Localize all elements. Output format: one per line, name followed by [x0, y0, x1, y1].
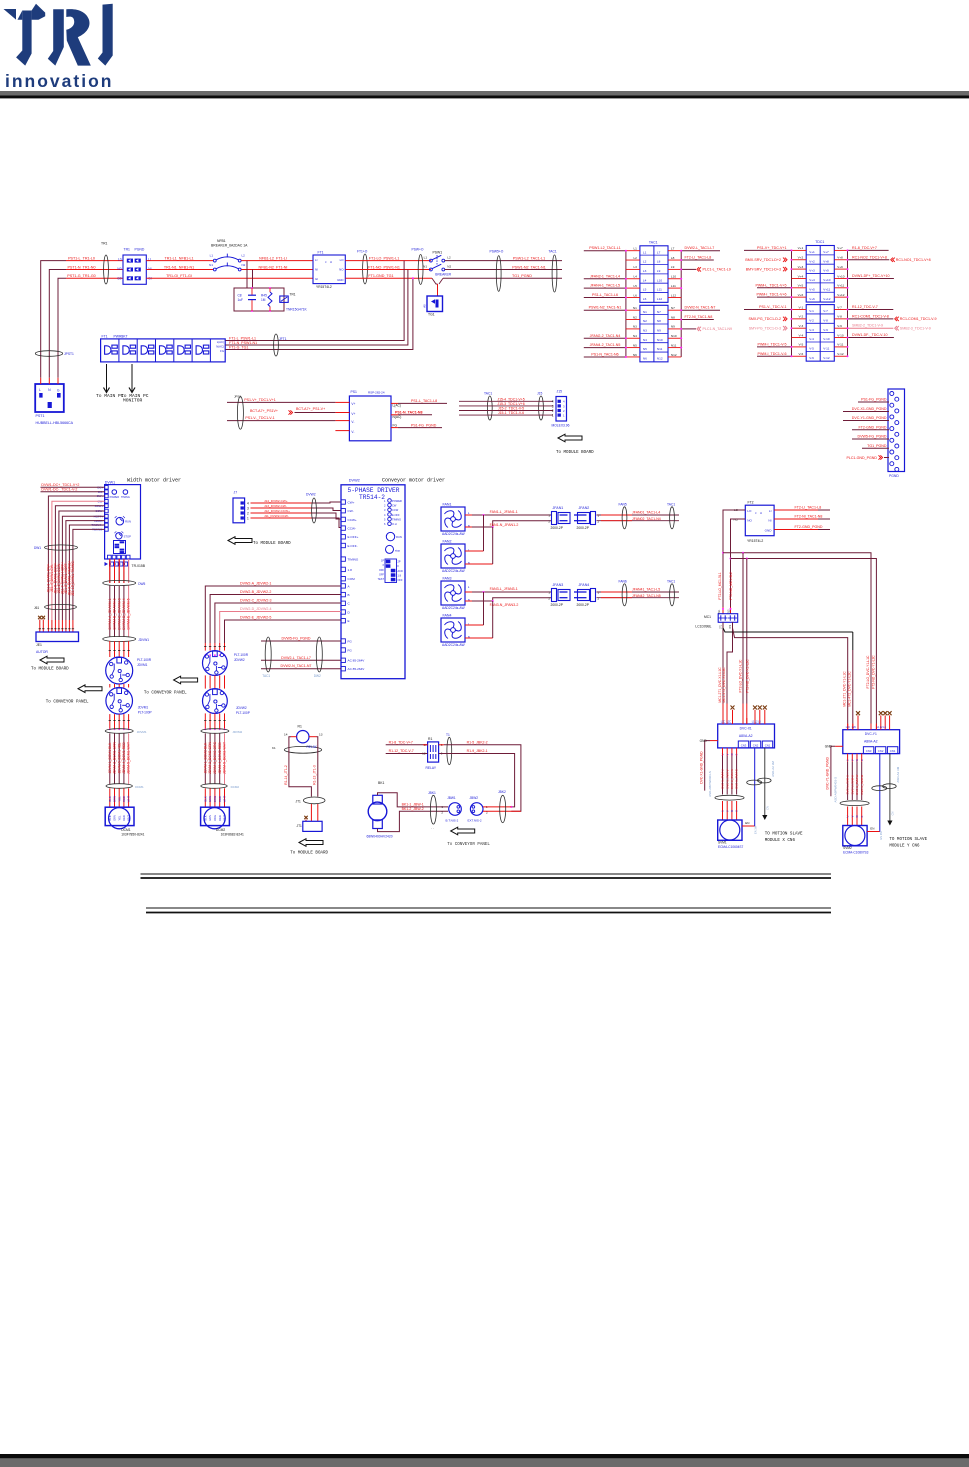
svg-text:L(AC): L(AC) [217, 340, 224, 344]
cable DCM1 [106, 784, 132, 789]
svg-text:L2C: L2C [727, 722, 732, 724]
wire snubber loop [234, 288, 284, 311]
svg-text:N6: N6 [633, 353, 637, 357]
pin stub TDC1 row 4 [792, 277, 807, 279]
svg-text:G: G [736, 753, 739, 755]
svg-text:CN3: CN3 [866, 749, 872, 753]
svg-text:2: 2 [598, 519, 600, 523]
svg-text:V-12: V-12 [837, 352, 844, 356]
svg-text:V+10: V+10 [837, 274, 845, 278]
wire TG1_PGND [862, 447, 889, 449]
svg-text:PWM-I_TDC1-V-5: PWM-I_TDC1-V-5 [758, 342, 787, 346]
svg-text:N9: N9 [657, 329, 661, 333]
svg-text:L: L [39, 388, 41, 392]
svg-text:E.OFF+: E.OFF+ [348, 535, 359, 539]
svg-text:1P: 1P [381, 560, 384, 563]
svg-text:L1: L1 [210, 254, 214, 258]
svg-text:JFAN1: JFAN1 [553, 506, 564, 510]
svg-text:DVC-X1: DVC-X1 [740, 727, 752, 731]
arrow to module board JE1 [40, 656, 64, 664]
svg-text:14: 14 [284, 732, 288, 736]
svg-text:4T2: 4T2 [730, 624, 732, 629]
wire JBW2 to JBK2 [483, 806, 511, 808]
svg-text:DVW2-C_JDVW2-3: DVW2-C_JDVW2-3 [240, 599, 272, 603]
svg-text:AAD2C24s-AW: AAD2C24s-AW [442, 606, 465, 610]
svg-text:ASD-A2 3M: ASD-A2 3M [771, 761, 775, 777]
svg-text:FAN3-L_JFAN3-1: FAN3-L_JFAN3-1 [490, 587, 518, 591]
svg-text:V+4: V+4 [809, 278, 815, 282]
svg-text:J7: J7 [234, 490, 238, 494]
svg-text:DCM1: DCM1 [135, 785, 144, 789]
svg-text:L7: L7 [671, 247, 675, 251]
footer rule [0, 1454, 969, 1458]
svg-text:V-: V- [351, 420, 354, 424]
svg-text:R1-13_JT1-3: R1-13_JT1-3 [313, 765, 317, 785]
svg-text:stop: stop [395, 549, 401, 553]
svg-text:1M: 1M [261, 298, 266, 302]
svg-text:TIMING: TIMING [392, 517, 401, 521]
svg-text:V-7: V-7 [837, 305, 842, 309]
wire feed JFAN2-1_TAC1-L4 [584, 278, 626, 280]
pin stub TAC1 row 6 [626, 296, 640, 298]
svg-text:L12: L12 [671, 293, 676, 297]
cable TAC1 dvw2 [265, 637, 271, 672]
svg-text:JBK1: JBK1 [428, 791, 436, 795]
svg-text:V+3: V+3 [809, 269, 815, 273]
pin stub TAC1 row 4 [626, 278, 640, 280]
svg-text:V+5: V+5 [809, 287, 815, 291]
svg-text:PST1-L_TR1-L0: PST1-L_TR1-L0 [68, 256, 95, 260]
svg-text:PGND: PGND [135, 248, 145, 252]
svg-text:V+9: V+9 [823, 269, 829, 273]
svg-text:PWM-I_TDC1-V+6: PWM-I_TDC1-V+6 [756, 293, 786, 297]
wire FAN4-L riser [465, 624, 484, 626]
svg-text:V+: V+ [351, 402, 355, 406]
cable DW5 [103, 580, 136, 585]
cable PSW5-O [496, 256, 501, 292]
svg-text:JFAN2-2_TAC1-N4: JFAN2-2_TAC1-N4 [590, 334, 621, 338]
wire DVW1 pin to JE1 2 [52, 501, 105, 620]
svg-text:GND: GND [825, 745, 833, 749]
wire BK1-1_JBW-1 [378, 793, 449, 807]
svg-text:V-3: V-3 [799, 324, 804, 328]
svg-text:L1: L1 [424, 256, 428, 260]
svg-text:BK1-1_JBW-1: BK1-1_JBW-1 [402, 802, 424, 806]
servo motor SVM2 [843, 826, 867, 846]
svg-text:JPS1: JPS1 [234, 394, 242, 398]
svg-text:JFAN02_TAC1-N4: JFAN02_TAC1-N4 [632, 517, 661, 521]
svg-text:JT1: JT1 [296, 800, 302, 804]
wire DVW1 pin to JE1 5 [62, 516, 104, 620]
svg-text:DVC-Y1-GND_PGND: DVC-Y1-GND_PGND [852, 416, 887, 420]
svg-text:L: L [468, 585, 470, 589]
motor wires DVC-X1 [722, 748, 724, 756]
svg-text:JDVM-3_DCM2-ORG: JDVM-3_DCM2-ORG [213, 742, 217, 775]
wire PS1 N(AC) [391, 414, 398, 416]
svg-text:J15-4_TDC1-V+5: J15-4_TDC1-V+5 [497, 397, 524, 401]
svg-text:DVWM-E_JDVWM-5: DVWM-E_JDVWM-5 [127, 598, 131, 629]
svg-text:GI: GI [315, 277, 318, 281]
svg-text:PWM-L_TDC1-V+5: PWM-L_TDC1-V+5 [755, 283, 786, 287]
wire feed JFAN2-2_TAC1-N4 [584, 337, 626, 339]
svg-text:TDC1: TDC1 [815, 240, 824, 244]
svg-text:A80A-A2: A80A-A2 [864, 740, 878, 744]
svg-text:PGND: PGND [889, 474, 899, 478]
wire FAN2-L riser [465, 550, 484, 552]
svg-text:J15: J15 [537, 392, 542, 396]
svg-text:TAC1: TAC1 [649, 241, 658, 245]
wire MC1 to DVC-X1 L1C [722, 622, 724, 703]
harness labels DCM1 upper [109, 586, 111, 638]
svg-text:E: E [348, 619, 350, 623]
svg-text:V-11: V-11 [823, 347, 829, 351]
wire FAN1-L [465, 514, 472, 516]
net RC1-COM1_TDC1-V-8 [848, 318, 894, 320]
svg-text:N1: N1 [423, 265, 427, 269]
svg-text:V+8: V+8 [837, 256, 843, 260]
svg-text:N11: N11 [657, 347, 663, 351]
motor DCM1 [109, 788, 111, 807]
svg-text:FT1-LO_PSW1-L1: FT1-LO_PSW1-L1 [369, 256, 400, 260]
bus TDC1 left [791, 250, 793, 356]
svg-text:V-4: V-4 [799, 333, 804, 337]
svg-text:JFAN3: JFAN3 [553, 583, 564, 587]
encoder EN wire DVC-X1 [742, 825, 755, 827]
wire J11_DVW2-CCW- [251, 517, 312, 519]
svg-text:1: 1 [384, 499, 386, 503]
svg-text:N7: N7 [671, 306, 675, 310]
svg-text:N5: N5 [633, 343, 637, 347]
svg-text:CCW+: CCW+ [348, 518, 357, 522]
wire DVW1 pin to JE1 1 [48, 496, 104, 620]
svg-text:R1-14_JT1-2: R1-14_JT1-2 [284, 765, 288, 785]
svg-text:1: 1 [552, 414, 554, 418]
capacitor C8 [251, 288, 253, 295]
svg-text:To CONVEYOR PANEL: To CONVEYOR PANEL [447, 843, 490, 847]
svg-text:RED: RED [122, 796, 126, 802]
svg-text:FT1-NO_PSW1-N1: FT1-NO_PSW1-N1 [368, 265, 400, 269]
svg-text:V+1: V+1 [798, 246, 804, 250]
svg-text:J12_DVW2-CCW+: J12_DVW2-CCW+ [264, 509, 290, 513]
svg-text:CN2: CN2 [753, 743, 759, 747]
wire PS1 V+2 break [335, 412, 349, 414]
cable PSW-O [418, 255, 423, 285]
svg-text:DVW2-L_TAC1-L7: DVW2-L_TAC1-L7 [685, 246, 715, 250]
wires JDVW2 to cable [204, 713, 206, 729]
svg-text:JFAN2-1_TAC1-L4: JFAN2-1_TAC1-L4 [590, 274, 620, 278]
net RC1-NO2_TDC1-V+8 [848, 259, 890, 261]
wire NFB1 to FT1 [241, 260, 313, 262]
svg-text:N2: N2 [643, 319, 647, 323]
svg-text:L3: L3 [633, 265, 637, 269]
svg-text:V+12: V+12 [823, 297, 831, 301]
svg-text:J15: J15 [557, 390, 563, 394]
svg-text:TR514-2: TR514-2 [359, 494, 385, 501]
svg-text:L4: L4 [643, 278, 647, 282]
pin stub TDC1 row 5 [792, 287, 807, 289]
svg-text:MOLEX3.96: MOLEX3.96 [552, 424, 570, 428]
svg-text:V+10: V+10 [823, 278, 831, 282]
svg-text:YR15T4L2: YR15T4L2 [747, 539, 763, 543]
svg-text:D: D [348, 610, 351, 614]
svg-text:N: N [48, 388, 51, 392]
svg-text:L2: L2 [643, 260, 647, 264]
svg-text:GND: GND [337, 278, 343, 282]
svg-text:L5: L5 [633, 284, 637, 288]
svg-text:DVWM-D_JDVWM-4: DVWM-D_JDVWM-4 [122, 598, 126, 629]
arrow to conveyor panel 2 [174, 676, 198, 684]
svg-text:L10: L10 [671, 275, 676, 279]
wire PSW1 outputs [445, 260, 562, 262]
svg-text:AAD2C24s-AW: AAD2C24s-AW [442, 643, 465, 647]
svg-text:PS1-V+_TDC1-V+1: PS1-V+_TDC1-V+1 [244, 398, 276, 402]
wire MC1 to DVC-Y1 black [723, 628, 853, 632]
cable servo power DVC-X1 [715, 795, 744, 800]
svg-text:JDVW1: JDVW1 [138, 638, 149, 642]
pin stub TAC1 row 9 [626, 328, 640, 330]
wire DVW2-D_JDVW2-4 [220, 612, 341, 644]
svg-text:L9: L9 [671, 265, 675, 269]
bus TAC1 left [625, 251, 627, 357]
svg-text:CN1: CN1 [890, 749, 896, 753]
svg-text:V-2: V-2 [809, 318, 814, 322]
svg-text:SVM2: SVM2 [843, 846, 852, 850]
svg-text:EN 3M: EN 3M [754, 826, 758, 834]
svg-text:4: 4 [563, 400, 565, 404]
svg-text:PLT-100P: PLT-100P [138, 710, 152, 714]
svg-text:DVW5-FG_PGND: DVW5-FG_PGND [858, 435, 887, 439]
wire PS1 V+1 [335, 401, 349, 403]
svg-text:MC1: MC1 [704, 615, 711, 619]
svg-text:MC1-2T1_DVC-Y1-L1C: MC1-2T1_DVC-Y1-L1C [843, 671, 847, 707]
svg-text:PST1-N_TR1-N0: PST1-N_TR1-N0 [67, 265, 95, 269]
svg-text:CW: CW [392, 503, 397, 507]
svg-text:N11: N11 [671, 343, 677, 347]
svg-text:TR-015B: TR-015B [132, 564, 146, 568]
svg-text:R1-9_JBK2-1: R1-9_JBK2-1 [467, 749, 488, 753]
wire PS1 FG [391, 427, 398, 429]
svg-text:EN: EN [745, 821, 749, 825]
wire branch to DVC-X1 L2C [746, 558, 748, 560]
svg-text:YEL: YEL [117, 815, 121, 820]
svg-text:L2: L2 [633, 256, 637, 260]
wire feed JFAN4-1_TAC1-L5 [584, 287, 626, 289]
svg-text:FT2-GND_PGND: FT2-GND_PGND [859, 426, 887, 430]
svg-text:JDVM-2_DCM1-GRN: JDVM-2_DCM1-GRN [113, 741, 117, 774]
bus TAC1 right [680, 251, 682, 357]
svg-text:JFT1: JFT1 [279, 337, 287, 341]
round connector JDVM1 R [109, 641, 111, 657]
svg-text:2T1: 2T1 [721, 624, 723, 629]
svg-text:POWER: POWER [110, 496, 120, 499]
svg-text:F: F [398, 565, 400, 568]
svg-text:DVC-U_SVM-G: DVC-U_SVM-G [735, 769, 739, 789]
svg-text:E.OFF: E.OFF [392, 513, 400, 517]
svg-text:V-3: V-3 [809, 328, 814, 332]
svg-text:3: 3 [563, 404, 565, 408]
svg-text:DVC-U_SVM-W: DVC-U_SVM-W [730, 769, 734, 789]
svg-text:NFB1: NFB1 [217, 239, 226, 243]
svg-text:2000-2P: 2000-2P [577, 526, 590, 530]
svg-text:FAN4: FAN4 [443, 614, 452, 618]
svg-text:G: G [736, 810, 739, 812]
svg-text:WHT: WHT [223, 815, 227, 821]
svg-text:JDVM-4_DCM1-RED: JDVM-4_DCM1-RED [122, 742, 126, 774]
svg-text:N1: N1 [209, 263, 213, 267]
cable DW1 [45, 545, 78, 550]
svg-text:NFB1-L2_FT1-LI: NFB1-L2_FT1-LI [259, 256, 287, 260]
svg-text:N9: N9 [671, 325, 675, 329]
svg-text:2: 2 [598, 596, 600, 600]
svg-text:BREAKER_6A2DAC 1A: BREAKER_6A2DAC 1A [211, 244, 248, 248]
svg-text:RELAY: RELAY [307, 745, 318, 749]
bus TDC1 right [847, 250, 849, 356]
svg-text:DVC-Y1-GND_PGND: DVC-Y1-GND_PGND [826, 757, 830, 790]
svg-text:N2: N2 [633, 315, 637, 319]
cable TR1 [104, 255, 109, 284]
svg-text:COM: COM [348, 577, 356, 581]
svg-text:V-11: V-11 [837, 343, 843, 347]
svg-text:JDVM-4_DCM2-RED: JDVM-4_DCM2-RED [218, 742, 222, 774]
wire DVW2-A_JDVW2-1 [205, 586, 341, 643]
svg-text:FAN3-N_JFAN3-2: FAN3-N_JFAN3-2 [490, 603, 519, 607]
svg-text:L4: L4 [633, 275, 637, 279]
motor DCM2 [204, 788, 206, 807]
wire FAN3-N [465, 598, 552, 601]
svg-text:2: 2 [247, 511, 249, 515]
svg-text:MODULE Y CN6: MODULE Y CN6 [889, 845, 920, 849]
svg-text:JFAN01_TAC1-L4: JFAN01_TAC1-L4 [632, 511, 660, 515]
svg-text:V-12: V-12 [823, 356, 830, 360]
wire feed PS1-L_TAC1-L6 [584, 296, 626, 298]
svg-text:PS1-FG_PGND: PS1-FG_PGND [861, 398, 887, 402]
svg-text:V-: V- [351, 430, 354, 434]
svg-text:PS1-FG_PGND: PS1-FG_PGND [411, 423, 437, 427]
wire R1-8_TDC-V+7 [386, 744, 428, 746]
svg-text:RC1-COM1_TDC1-V-9: RC1-COM1_TDC1-V-9 [900, 317, 937, 321]
svg-text:DVC-U_SVM-U: DVC-U_SVM-U [721, 769, 725, 788]
connector JT1 [304, 816, 307, 819]
svg-text:AC 85-264V: AC 85-264V [348, 659, 366, 663]
svg-text:L5: L5 [643, 288, 647, 292]
cable K1 relay [284, 746, 321, 753]
svg-text:EN 3M: EN 3M [879, 832, 883, 840]
svg-text:3: 3 [247, 506, 249, 510]
svg-text:PLT-100R: PLT-100R [234, 653, 249, 657]
wire FT2-GND_PGND [852, 429, 889, 431]
svg-text:RUN: RUN [125, 520, 131, 524]
svg-text:DCM1: DCM1 [121, 828, 131, 832]
svg-text:2: 2 [548, 519, 550, 523]
svg-text:DVW2-L_TAC1-L7: DVW2-L_TAC1-L7 [281, 656, 311, 660]
svg-text:K1: K1 [272, 746, 276, 750]
svg-text:RC1-NO1_TDC1-V+8: RC1-NO1_TDC1-V+8 [896, 258, 931, 262]
svg-text:YEL: YEL [117, 796, 121, 802]
svg-text:N8: N8 [657, 319, 661, 323]
svg-text:BLK: BLK [203, 815, 207, 820]
svg-text:DVW2: DVW2 [349, 479, 360, 483]
svg-text:STOP: STOP [124, 534, 131, 538]
svg-text:J61: J61 [34, 606, 39, 610]
cable JDVW1 [103, 636, 136, 641]
svg-text:AAD2C24s-AW: AAD2C24s-AW [442, 532, 465, 536]
pin stub TDC1 row 1 [792, 249, 807, 251]
wire DVW2-N_TAC1-N7 [261, 668, 341, 670]
svg-text:FT2-LI_TAC1-L8: FT2-LI_TAC1-L8 [795, 506, 822, 510]
svg-text:BMX-SRV_TDC1-D+2: BMX-SRV_TDC1-D+2 [745, 258, 781, 262]
pin stub TAC1 row 12 [626, 356, 640, 358]
svg-text:BK1-2_JBW-2: BK1-2_JBW-2 [402, 807, 424, 811]
svg-text:DW1: DW1 [34, 546, 41, 550]
svg-text:HUBBELL-HBL5666CA: HUBBELL-HBL5666CA [36, 421, 74, 425]
wire J12_DVW2-CCW+ [251, 512, 312, 514]
svg-text:DVWM-A_JDVWM-1: DVWM-A_JDVWM-1 [108, 598, 112, 629]
svg-text:JDVM1: JDVM1 [137, 730, 147, 734]
encoder EN wire DVC-Y1 [867, 831, 880, 833]
svg-text:RUN: RUN [396, 535, 402, 539]
pin stub TDC1 row 9 [792, 327, 807, 329]
svg-text:FT2-NI_TAC1-N8: FT2-NI_TAC1-N8 [795, 515, 823, 519]
svg-text:2: 2 [552, 409, 554, 413]
svg-text:YR15T4L2: YR15T4L2 [316, 285, 332, 289]
arrow to module board [558, 434, 582, 442]
net BMY-SRV_TDC1-D+3 [783, 267, 787, 271]
svg-text:RED: RED [218, 796, 222, 802]
svg-text:DVW1: DVW1 [105, 480, 115, 484]
svg-text:L6: L6 [643, 297, 647, 301]
svg-text:PS1-N_TAC1-N6: PS1-N_TAC1-N6 [591, 352, 618, 356]
net DVW1-DF+_TDC-V+10 [848, 277, 894, 279]
svg-text:13: 13 [319, 732, 323, 736]
svg-text:T1: T1 [446, 733, 450, 737]
svg-text:To CONVEYOR PANEL: To CONVEYOR PANEL [144, 692, 187, 696]
svg-text:N(AC): N(AC) [393, 415, 402, 419]
varistor TR1 TNR15G471K [280, 296, 288, 302]
svg-text:NI: NI [768, 519, 771, 523]
svg-text:SVM1: SVM1 [718, 840, 727, 844]
svg-text:R45: R45 [261, 294, 267, 298]
wire DVW5-FG_PGND [852, 438, 889, 440]
svg-text:CW+: CW+ [348, 500, 355, 504]
header rule [0, 91, 969, 95]
wire FAN4-N riser [465, 637, 493, 639]
svg-text:DW5: DW5 [138, 582, 145, 586]
wire PST1-L [66, 260, 123, 262]
svg-text:LI: LI [769, 509, 772, 513]
pin stub TAC1 row 10 [626, 337, 640, 339]
svg-text:OFF: OFF [379, 569, 384, 572]
svg-text:TR1-L1_NFB1-L1: TR1-L1_NFB1-L1 [164, 256, 193, 260]
wire DVW1 pin to JE1 4 [59, 511, 105, 620]
wire FT2-NO to MC1 [731, 519, 746, 607]
svg-text:TR1: TR1 [101, 242, 108, 246]
connector row TR-015B [105, 562, 109, 566]
svg-text:NI: NI [315, 268, 318, 272]
svg-text:V+7: V+7 [837, 246, 843, 250]
svg-text:L1: L1 [643, 250, 647, 254]
svg-text:V+6: V+6 [798, 293, 804, 297]
svg-text:L12: L12 [657, 297, 662, 301]
svg-text:FT2-LI_TAC1-L8: FT2-LI_TAC1-L8 [685, 256, 712, 260]
svg-text:FG: FG [220, 349, 224, 353]
svg-text:DVW2-N_TAC1-N7: DVW2-N_TAC1-N7 [281, 664, 312, 668]
svg-text:DVW1-DF+_TDC-V+10: DVW1-DF+_TDC-V+10 [852, 274, 890, 278]
svg-text:L11: L11 [671, 284, 676, 288]
svg-text:V-10: V-10 [837, 333, 844, 337]
indicator POWER [112, 490, 117, 495]
svg-text:TAC1: TAC1 [262, 674, 270, 678]
svg-text:LO: LO [340, 258, 345, 262]
